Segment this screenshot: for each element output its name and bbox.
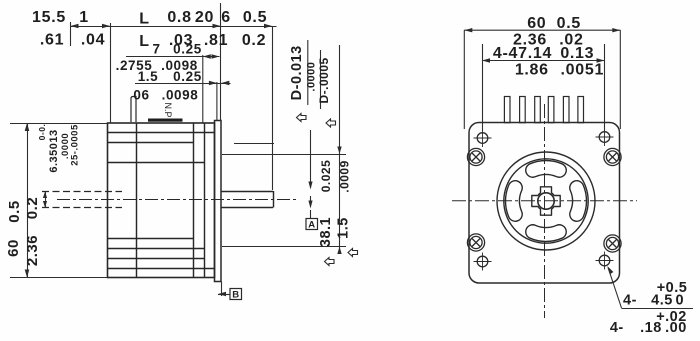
gearbox outer circle	[497, 152, 595, 250]
arrow datum A lower	[308, 201, 312, 209]
svg-text:1.5: 1.5	[138, 69, 159, 84]
svg-text:06: 06	[133, 88, 149, 103]
horizontal centerline	[452, 200, 637, 202]
hole bottom-left	[477, 256, 488, 267]
pin 5	[563, 97, 569, 123]
crosshair bottom-right	[596, 252, 614, 270]
body inner horizontal line bottom 3	[108, 258, 205, 260]
svg-text:.0051: .0051	[561, 62, 605, 79]
body inner horizontal line top 2	[108, 142, 194, 144]
svg-text:0.8: 0.8	[167, 9, 191, 26]
svg-text:L: L	[139, 33, 149, 50]
screw heads with X	[467, 148, 621, 252]
front view dimension lines	[464, 30, 693, 309]
arrow 60 front right	[612, 28, 620, 32]
tol dim line right col b	[320, 50, 322, 109]
ext line front right	[619, 30, 621, 129]
short line above pilot ext	[234, 143, 274, 145]
arrow 38.1 top	[337, 147, 341, 155]
svg-text:0.025: 0.025	[319, 160, 333, 193]
dim line 60 front	[464, 29, 620, 31]
ext line front left	[463, 30, 465, 129]
arrow 1.5 left	[209, 81, 217, 85]
hub cross	[532, 187, 560, 215]
svg-text:.04: .04	[81, 32, 105, 49]
flange edge extension down to B	[221, 282, 223, 297]
flange square front view	[469, 123, 620, 284]
svg-text:.61: .61	[40, 32, 64, 49]
svg-text:.00: .00	[665, 320, 687, 336]
svg-text:0.2: 0.2	[24, 197, 41, 219]
hollow arrow under D-.0005	[326, 119, 336, 127]
pin 3	[535, 97, 541, 123]
output shaft bottom line	[221, 207, 273, 209]
datum B leader	[218, 294, 230, 296]
arrow chain left	[71, 24, 79, 28]
arrow chain right	[264, 24, 272, 28]
pin 4	[548, 97, 554, 123]
body inner horizontal line bottom 1	[108, 238, 194, 240]
svg-text:.0000: .0000	[306, 62, 318, 92]
dim line 7mm row	[126, 56, 220, 58]
centerlines front view	[452, 104, 637, 318]
leader diagonal to hole	[608, 268, 622, 309]
svg-text:0-0.: 0-0.	[37, 124, 47, 141]
shaft circle	[538, 193, 554, 209]
svg-text:N.P: N.P	[163, 102, 173, 117]
crosshair bottom-left	[474, 253, 492, 271]
rotated texts right column	[289, 45, 352, 247]
svg-text:.0098: .0098	[162, 88, 199, 103]
svg-text:1.86: 1.86	[515, 62, 549, 79]
datum B box	[230, 289, 242, 300]
svg-text:A: A	[308, 220, 315, 231]
svg-text:0: 0	[676, 293, 685, 309]
svg-text:0.5: 0.5	[557, 15, 581, 32]
vertical centerline	[544, 104, 546, 318]
gearbox inner rim circle	[504, 159, 588, 243]
tol dim line right col a	[307, 40, 309, 105]
crosshair top-left	[474, 129, 492, 147]
arrow 7mm right	[212, 54, 220, 58]
pin 2	[520, 97, 526, 123]
pin 1	[504, 97, 510, 123]
top chain dim line	[71, 26, 277, 28]
front view dimension texts	[493, 15, 604, 79]
body inner horizontal line top 3	[108, 162, 205, 164]
dim line 60 vertical	[27, 123, 29, 278]
svg-text:4-47.14: 4-47.14	[493, 45, 552, 62]
ext line x=202.8	[202, 55, 204, 123]
svg-text:6.35013: 6.35013	[48, 129, 60, 172]
screw bottom-right	[604, 235, 621, 252]
hole top-right	[599, 132, 610, 143]
svg-text:60: 60	[527, 15, 546, 32]
ext line body top left	[10, 123, 108, 125]
svg-text:38.1: 38.1	[318, 217, 334, 247]
ext line hole right	[604, 44, 606, 131]
svg-text:.81: .81	[204, 32, 228, 49]
ext line x=110	[110, 23, 112, 123]
svg-text:4-: 4-	[610, 320, 624, 336]
svg-text:0.25: 0.25	[173, 42, 202, 57]
centerline side view	[57, 199, 296, 201]
svg-text:0.5: 0.5	[243, 9, 267, 26]
svg-text:0.25: 0.25	[173, 69, 202, 84]
datum A leader lower	[310, 196, 312, 206]
leader horizontal	[622, 308, 694, 310]
svg-text:4.5: 4.5	[651, 293, 673, 309]
arrow datum A upper	[308, 182, 312, 190]
svg-text:D-.0005: D-.0005	[317, 57, 331, 103]
svg-text:1: 1	[79, 9, 89, 26]
arrow datum B	[218, 292, 226, 296]
arrowheads side view	[25, 24, 342, 296]
body inner vertical line rear cap	[136, 123, 138, 278]
dimension graphics side view	[10, 3, 346, 296]
svg-text:0.13: 0.13	[560, 45, 594, 62]
slot left	[505, 181, 522, 221]
dim line 38.1 vertical	[339, 45, 341, 250]
hole top-left	[477, 133, 488, 144]
body inner horizontal line bottom 4	[108, 268, 215, 270]
body inner horizontal line top 1	[108, 132, 215, 134]
slot top	[526, 160, 567, 177]
screw top-right	[604, 148, 621, 165]
svg-text:25-.0005: 25-.0005	[70, 124, 81, 166]
arrow leader hole	[607, 266, 613, 274]
hollow arrow under D-0.013	[297, 114, 307, 122]
svg-text:4-: 4-	[623, 293, 637, 309]
svg-text:.0009: .0009	[338, 160, 352, 193]
arrow 6.35 bottom	[43, 201, 47, 208]
ext stub x=70.5	[70, 22, 72, 46]
arrow chain x220	[213, 24, 221, 28]
hollow arrow under 38.1	[325, 258, 335, 266]
slot right	[570, 181, 587, 222]
dim line 1.5mm row	[135, 83, 231, 85]
svg-text:.18: .18	[640, 320, 662, 336]
screw bottom-left	[467, 234, 484, 251]
nameplate bar on body top	[148, 119, 183, 122]
arrow 47.14 right	[597, 58, 605, 62]
dim line 47.14	[482, 60, 605, 62]
body inner horizontal line bottom 2	[108, 248, 205, 250]
connector pin (side view)	[131, 97, 136, 123]
hole bottom-right	[599, 255, 610, 266]
arrow chain x110	[102, 24, 110, 28]
svg-text:0.2: 0.2	[242, 32, 266, 49]
arrow 6.35 top	[43, 192, 47, 199]
corner mounting holes with crosshairs	[477, 132, 610, 267]
arrow 47.14 left	[482, 58, 490, 62]
svg-text:15.5: 15.5	[32, 9, 66, 26]
datum A box	[306, 219, 318, 230]
pilot ext line top	[222, 154, 346, 156]
ext line hole left	[482, 44, 484, 131]
svg-text:60: 60	[5, 239, 22, 257]
ext line x=216.9	[216, 82, 218, 121]
body inner vertical line front cap 2	[204, 123, 206, 278]
arrow 60 front left	[464, 28, 472, 32]
ext line body bottom left	[10, 277, 108, 279]
datum A leader upper	[310, 130, 312, 187]
hidden rear shaft dashed bottom	[42, 207, 122, 209]
output shaft end	[273, 191, 275, 208]
hollow arrow under 1.5	[348, 249, 358, 257]
hollow diameter arrows	[297, 114, 358, 266]
svg-text:B: B	[232, 290, 239, 301]
svg-text:1.5: 1.5	[336, 217, 352, 239]
ext line x=220.5 long	[220, 3, 222, 121]
svg-text:20: 20	[195, 9, 214, 26]
arrow 7mm left	[203, 54, 211, 58]
arrow 60 top	[25, 123, 30, 131]
datum A leader to box	[310, 210, 312, 219]
front flange plate (side view)	[215, 121, 222, 282]
pin 6	[578, 97, 584, 123]
dim line rear shaft 6.35	[45, 192, 47, 208]
svg-text:7: 7	[152, 42, 160, 57]
rotated texts left column	[5, 124, 81, 266]
ext line shaft end x=272	[272, 26, 274, 190]
svg-text:2.36: 2.36	[24, 235, 41, 266]
svg-text:0.5: 0.5	[6, 200, 23, 222]
crosshair top-right	[596, 128, 614, 146]
body inner vertical line front cap	[193, 123, 195, 278]
arrow 1.5 right	[221, 81, 229, 85]
output shaft top line	[221, 191, 273, 193]
svg-text:L: L	[139, 11, 149, 28]
arrow 60 bottom	[25, 270, 30, 278]
hidden rear shaft dashed top	[42, 191, 122, 193]
svg-text:6: 6	[221, 9, 231, 26]
pilot ext line bottom	[222, 246, 346, 248]
screw top-left	[467, 148, 484, 165]
arrow 38.1 bottom	[337, 247, 341, 255]
slot bottom	[526, 225, 567, 242]
svg-text:D-0.013: D-0.013	[289, 45, 305, 100]
motor body outline (side view)	[108, 123, 215, 278]
